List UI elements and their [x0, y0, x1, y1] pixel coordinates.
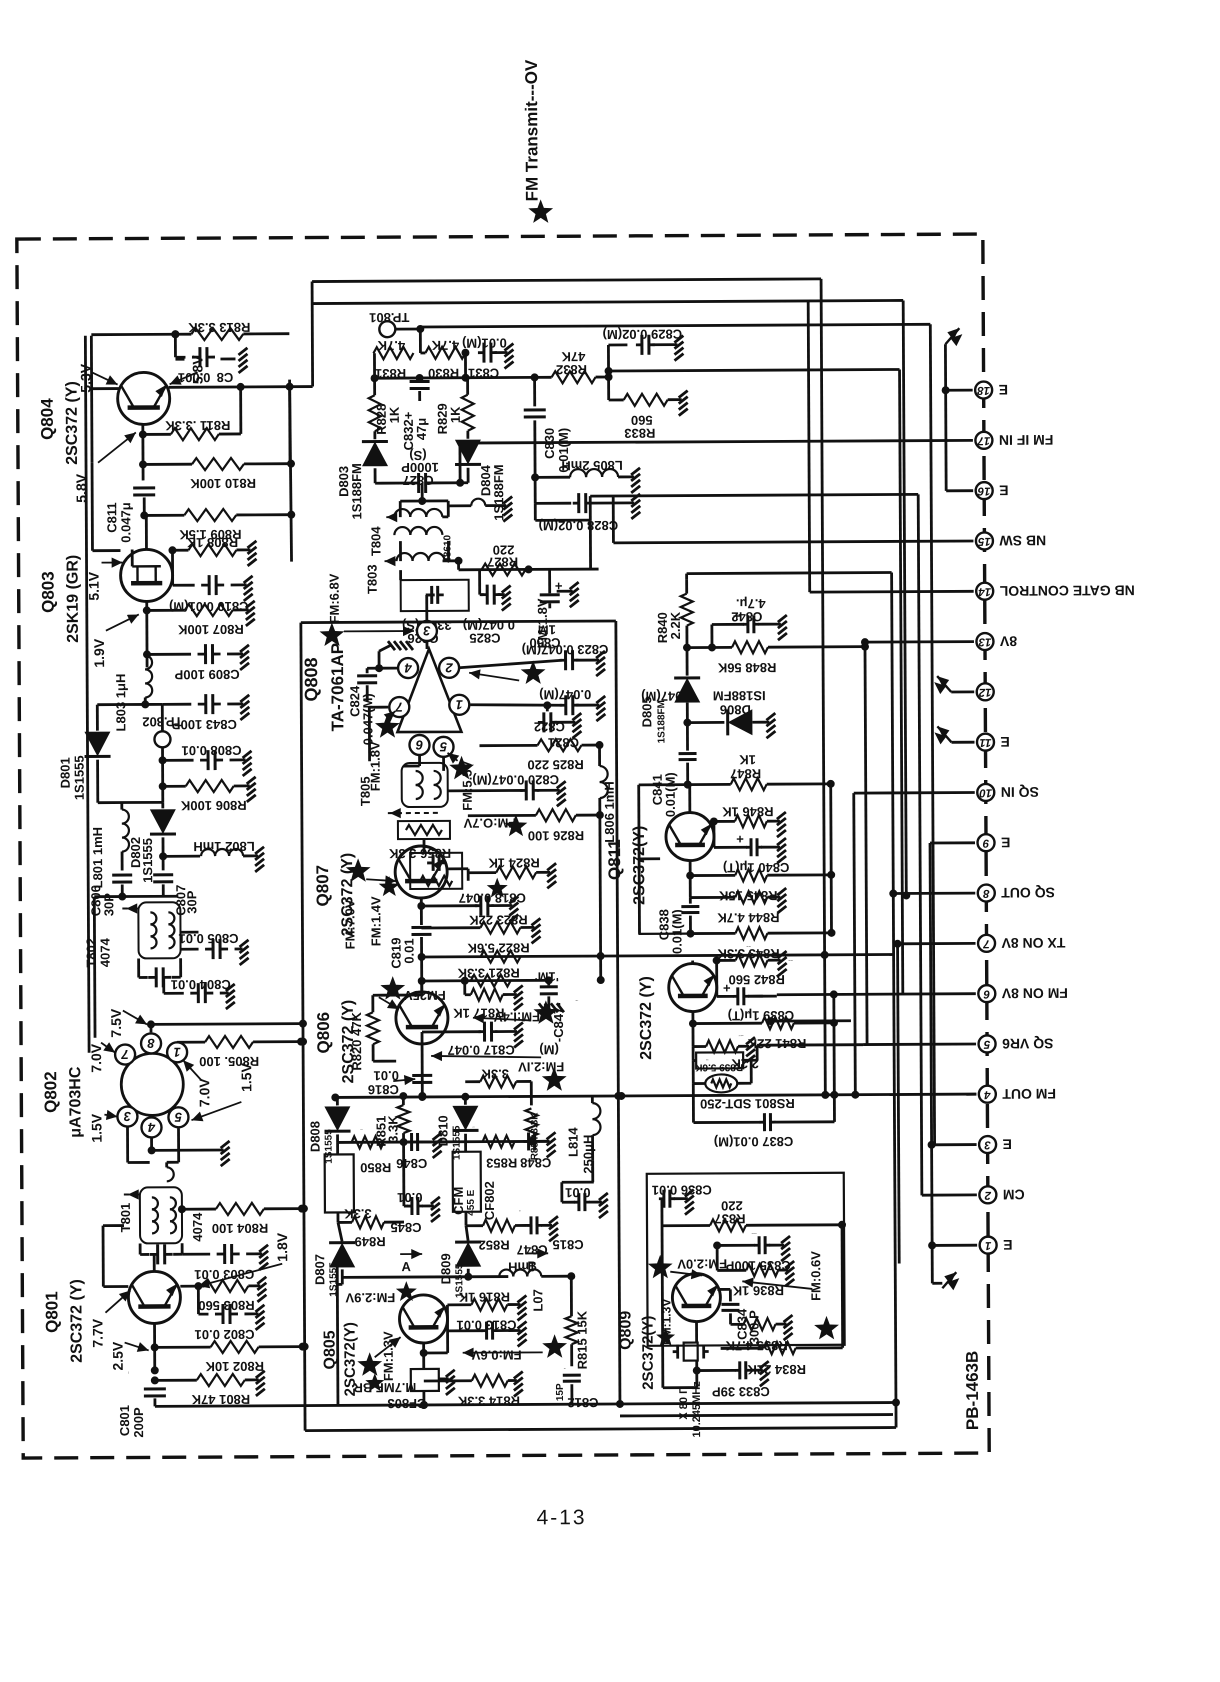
pin Q808-7	[389, 697, 409, 717]
wire Q801 base	[103, 1226, 128, 1287]
wire C801 bottom	[154, 1398, 157, 1406]
wire q806 col up	[420, 981, 423, 995]
wire mid box top	[301, 621, 616, 623]
wire mid vertical x617	[612, 621, 624, 1404]
inductor L806 1mH	[600, 745, 618, 843]
svg-text:R821 3.3K: R821 3.3K	[457, 965, 520, 980]
thermistor RS801	[693, 1060, 795, 1112]
board name PB-1463B	[963, 1351, 982, 1430]
svg-text:CM: CM	[1003, 1187, 1025, 1203]
wire bus right mid5	[850, 793, 860, 1099]
wire top bus A	[312, 279, 821, 282]
wire x592 upper	[589, 520, 592, 569]
svg-text:R853: R853	[486, 1155, 517, 1170]
svg-text:12: 12	[978, 686, 991, 698]
wire row377	[370, 352, 538, 382]
svg-text:Q806: Q806	[314, 1012, 333, 1054]
capacitor C830 0.01(M)	[524, 410, 571, 473]
wire pin8 SQ OUT	[893, 892, 975, 895]
connector pin 17 FM IF IN	[975, 431, 1053, 448]
testpoint TP.802	[142, 704, 182, 747]
svg-text:1: 1	[985, 1239, 991, 1251]
svg-text:T801: T801	[118, 1203, 133, 1233]
transistor Q801	[128, 1271, 180, 1323]
ground CF803	[439, 1370, 455, 1395]
svg-text:1S188FM: 1S188FM	[491, 464, 506, 520]
capacitor C841 0.01(M)	[649, 723, 696, 818]
svg-text:4: 4	[404, 661, 413, 676]
label 7.5V	[108, 1008, 147, 1038]
svg-text:4-13: 4-13	[536, 1506, 586, 1529]
wire row956	[418, 951, 894, 961]
svg-text:CFM: CFM	[451, 1187, 466, 1215]
svg-text:TA-7061AP: TA-7061AP	[328, 643, 347, 732]
resistor R824 1K	[468, 855, 550, 897]
resistor R850 box	[325, 1142, 392, 1222]
svg-text:1: 1	[173, 1045, 180, 1060]
label FM:1.3V q805	[357, 1331, 401, 1381]
svg-text:+: +	[733, 608, 741, 623]
svg-text:3: 3	[123, 1109, 131, 1124]
svg-text:R822 5.6K: R822 5.6K	[467, 940, 530, 955]
resistor R829 1K	[435, 378, 474, 435]
wire Q801 emitter	[151, 1323, 159, 1374]
wire R840 top	[687, 573, 892, 580]
tank disc box	[410, 853, 462, 889]
svg-text:47μ: 47μ	[414, 418, 429, 441]
capacitor C8x	[413, 1221, 416, 1224]
capacitor C843 100P	[162, 694, 243, 732]
resistor R808 1K	[168, 535, 250, 556]
ground R844	[777, 888, 786, 913]
wire y371 bus	[535, 371, 609, 377]
wire mid vertical x600	[596, 830, 605, 984]
svg-text:R804 100: R804 100	[212, 1221, 268, 1236]
connector pin 2 CM	[979, 1186, 1024, 1203]
resistor R828 1K	[369, 378, 402, 435]
svg-text:17: 17	[977, 434, 990, 446]
ground Q802	[221, 1141, 230, 1166]
label FM:2.1V	[431, 1050, 567, 1091]
capacitor C845 0.01	[390, 1142, 434, 1235]
svg-text:0.01: 0.01	[397, 1190, 422, 1205]
ground C845	[431, 1197, 440, 1222]
wire pin11 stub	[951, 741, 974, 744]
svg-text:0.01(M): 0.01(M)	[462, 336, 507, 351]
ground C850	[550, 582, 579, 608]
capacitor C813 0.01	[447, 1317, 520, 1339]
svg-text:+: +	[723, 980, 731, 995]
svg-text:FM:I.4V: FM:I.4V	[493, 1009, 540, 1024]
wire pin18 stub	[942, 386, 973, 394]
wire pin10 SQ IN	[854, 791, 975, 794]
connector pin 7 TX ON 8V	[978, 934, 1065, 951]
wire E bus 18-16	[944, 344, 948, 491]
ground R806	[247, 777, 256, 802]
svg-text:L07: L07	[530, 1289, 545, 1311]
wire D row down	[400, 483, 448, 501]
resistor R840 2.2K	[655, 580, 693, 652]
tank R856 box	[388, 821, 451, 861]
svg-text:FM ON 8V: FM ON 8V	[1001, 985, 1068, 1001]
svg-text:R846 1K: R846 1K	[722, 804, 774, 819]
ground D806	[766, 713, 775, 738]
svg-text:R839 5.6K: R839 5.6K	[694, 1061, 743, 1072]
tank T803 box	[401, 580, 469, 611]
svg-text:R815 15K: R815 15K	[574, 1310, 589, 1369]
resistor R852 3.3K	[466, 1209, 526, 1252]
capacitor C835 100P	[717, 1232, 791, 1273]
svg-text:FM:6.8V: FM:6.8V	[327, 573, 342, 623]
transistor Q804	[118, 372, 170, 424]
capacitor C847b	[516, 1216, 552, 1257]
label FM:2.9V	[345, 1281, 417, 1305]
svg-text:R810 100K: R810 100K	[190, 476, 256, 491]
svg-text:7.0V: 7.0V	[196, 1078, 212, 1108]
ground C843	[240, 695, 249, 720]
svg-text:T802: T802	[84, 938, 99, 968]
resistor R849 3.3K	[338, 1206, 404, 1249]
diode D808 1S1555	[307, 1096, 350, 1163]
resistor R805 100	[177, 1036, 305, 1070]
svg-text:14: 14	[978, 585, 991, 597]
wire Q808 p4	[367, 645, 397, 672]
resistor R843 3.3K	[686, 927, 835, 962]
svg-text:C820 0.047(M): C820 0.047(M)	[472, 772, 559, 787]
ground R836	[785, 1261, 794, 1286]
svg-text:R838: R838	[706, 1058, 709, 1060]
label 1.5V a	[88, 1110, 117, 1143]
svg-text:R849: R849	[355, 1234, 386, 1249]
svg-text:R842 560: R842 560	[728, 972, 784, 987]
capacitor C808 0.01	[162, 743, 245, 770]
resistor R817 1K	[452, 980, 516, 1020]
capacitor C832 47u	[401, 378, 430, 450]
ground R846	[777, 812, 786, 837]
svg-text:2: 2	[445, 660, 454, 675]
svg-text:2: 2	[984, 1189, 992, 1201]
ground R823	[531, 918, 540, 943]
transformer T803	[364, 541, 462, 594]
svg-text:7: 7	[983, 937, 990, 949]
svg-text:8: 8	[982, 887, 989, 899]
svg-text:C836 0.01: C836 0.01	[652, 1182, 712, 1197]
ground C848	[547, 1132, 556, 1157]
wire Q811b emitter	[689, 1012, 697, 1028]
wire pin16 stub	[946, 489, 973, 492]
svg-text:C848: C848	[520, 1155, 551, 1170]
svg-text:4074: 4074	[98, 937, 113, 967]
capacitor T802 tune	[139, 958, 181, 987]
wire row1095	[331, 1090, 976, 1101]
svg-text:4.7K: 4.7K	[431, 338, 459, 353]
svg-text:(M): (M)	[539, 1042, 559, 1057]
svg-text:'1M': '1M'	[535, 969, 559, 984]
svg-text:R837: R837	[714, 1211, 745, 1226]
wire Q804 box	[91, 330, 180, 462]
transformer T805	[358, 763, 448, 819]
svg-text:C804 0.01: C804 0.01	[171, 977, 231, 992]
chassis arrow bottom	[942, 1272, 959, 1290]
capacitor C806 30P	[88, 875, 132, 916]
wire Q804 col	[168, 304, 313, 465]
wire bus x824	[821, 279, 825, 1095]
connector pin 18 E	[975, 381, 1008, 398]
diode D802 1S1555	[128, 802, 176, 883]
transistor Q806	[396, 992, 448, 1044]
label 7.0V b	[183, 1060, 212, 1107]
svg-text:C830: C830	[542, 428, 557, 459]
transformer T804	[368, 501, 453, 563]
svg-text:0.047μ: 0.047μ	[118, 502, 133, 543]
svg-text:D809: D809	[438, 1253, 453, 1284]
svg-text:FM:2.IV: FM:2.IV	[518, 1059, 565, 1074]
svg-text:R833: R833	[624, 426, 655, 441]
wire pin9 stub	[930, 841, 975, 844]
svg-text:E: E	[1000, 734, 1009, 750]
svg-text:8: 8	[147, 1036, 155, 1051]
label Q808	[301, 643, 347, 732]
capacitor C802 0.01	[194, 1286, 258, 1342]
svg-text:FM IF IN: FM IF IN	[999, 432, 1054, 448]
ground C810	[244, 576, 253, 601]
svg-text:FM:1.4V: FM:1.4V	[368, 896, 383, 946]
ground R816	[517, 1295, 526, 1320]
capacitor C847m	[535, 969, 564, 1012]
wire bus right mid3	[888, 573, 900, 1428]
star Q807 base	[346, 858, 397, 886]
IC Q808 triangle	[397, 649, 461, 732]
svg-text:16: 16	[977, 485, 990, 497]
svg-text:2SC372 (Y): 2SC372 (Y)	[638, 976, 655, 1060]
svg-text:5: 5	[983, 1038, 990, 1050]
svg-text:R823 22K: R823 22K	[469, 912, 528, 927]
svg-text:FM:1.3V: FM:1.3V	[381, 1331, 396, 1381]
wire L803 bottom	[97, 697, 162, 708]
capacitor C829 0.02(M)	[603, 327, 683, 355]
connector pin 16 E	[976, 482, 1009, 499]
label FM:0.6V q809	[742, 1251, 839, 1340]
svg-text:R808 1K: R808 1K	[186, 535, 238, 550]
capacitor C834 300P	[717, 1289, 761, 1344]
transformer T801 4074	[118, 1187, 205, 1243]
svg-text:L806 1mH: L806 1mH	[602, 781, 617, 842]
svg-text:L801 1mH: L801 1mH	[90, 827, 105, 888]
box Q809	[647, 1173, 845, 1346]
svg-text:T804: T804	[368, 526, 383, 556]
svg-text:D806: D806	[720, 702, 751, 717]
ground R842	[778, 951, 787, 976]
svg-text:C8 0.001: C8 0.001	[178, 370, 233, 385]
wire Q802 pin5	[127, 1127, 178, 1162]
svg-text:FM:1.8V: FM:1.8V	[535, 598, 550, 648]
svg-text:4: 4	[984, 1088, 992, 1100]
wire TP801 row	[395, 322, 930, 353]
pin Q808-6	[409, 735, 429, 755]
wire pin3 stub	[928, 1141, 977, 1149]
label 1.5V b	[191, 1062, 254, 1121]
svg-text:FM:2.9V: FM:2.9V	[345, 1290, 395, 1305]
testpoint TP.801	[369, 310, 409, 337]
inductor T801 link	[167, 1162, 179, 1181]
svg-text:SQ OUT: SQ OUT	[1001, 885, 1055, 901]
svg-text:R848 56K: R848 56K	[717, 660, 776, 675]
capacitor C814 0.001	[175, 347, 233, 385]
svg-text:11: 11	[979, 736, 991, 748]
capacitor T801 tune	[140, 1243, 182, 1264]
label 7.0V a	[88, 1042, 115, 1073]
wire Q802 top	[147, 1020, 301, 1033]
ground C805	[240, 940, 249, 965]
label Q806	[314, 1000, 357, 1084]
resistor R820 47K	[349, 995, 422, 1071]
capacitor C803 0.01	[182, 1244, 262, 1282]
resistor R827 220	[481, 542, 525, 575]
wire pin6 FM ON 8V	[777, 990, 976, 999]
svg-text:-C847: -C847	[575, 999, 578, 1002]
resistor R815 15K	[565, 1276, 589, 1369]
capacitor C820 0.047(M)	[448, 772, 560, 801]
wire C811-Q803	[140, 497, 148, 519]
svg-text:0.047(M): 0.047(M)	[539, 687, 591, 702]
capacitor C825 0.047(M)	[463, 569, 515, 645]
ground R835	[783, 1315, 792, 1340]
svg-text:C811: C811	[104, 502, 119, 532]
wire Q803 emitter	[143, 601, 151, 667]
wire bus x933	[930, 324, 934, 1144]
resistor R804 100	[178, 1203, 306, 1237]
resistor R837 220	[662, 1198, 846, 1232]
svg-text:4: 4	[147, 1120, 156, 1135]
svg-text:15P: 15P	[564, 1367, 566, 1369]
wire Q809 bottom	[619, 1198, 893, 1416]
label FM:6.8V	[319, 573, 414, 646]
wire pin14 NB GATE	[808, 300, 974, 592]
ground C803	[259, 1245, 268, 1270]
svg-text:5.8V: 5.8V	[73, 473, 89, 503]
capacitor C840 1u	[714, 821, 790, 875]
svg-text:FM:0.6V: FM:0.6V	[808, 1251, 823, 1301]
wire pin13 junction	[861, 638, 869, 646]
connector pin 6 FM ON 8V	[978, 985, 1068, 1002]
wire pin4 FM OUT	[966, 1093, 976, 1096]
resistor R821 3.3K	[457, 965, 520, 986]
label FM:1.4V q807	[368, 876, 400, 946]
wire row1141	[338, 1141, 550, 1142]
ground C815	[599, 1193, 608, 1218]
svg-text:560: 560	[631, 413, 653, 428]
wire R832 up	[608, 345, 627, 377]
resistor R806 100K	[159, 780, 250, 813]
resistor R814 3.3K	[424, 1374, 520, 1409]
svg-text:E: E	[999, 483, 1008, 499]
label Q801	[42, 1279, 85, 1363]
resistor R841 22K	[693, 995, 838, 1052]
label Q807	[313, 853, 356, 937]
resistor R826 100	[468, 809, 604, 844]
diode D805 1S188FM	[639, 648, 701, 744]
svg-text:1: 1	[456, 697, 463, 712]
capacitor C818b	[421, 890, 526, 916]
wire Q811 emitter	[686, 861, 694, 880]
label FM:0.7V	[463, 814, 527, 836]
ground R807	[246, 601, 255, 626]
wire pin1 stub	[928, 1241, 977, 1249]
wire pin12 stub	[951, 690, 974, 693]
svg-text:5.1V: 5.1V	[86, 571, 102, 601]
resistor R809 1.5K	[144, 509, 295, 543]
svg-text:0.01(M): 0.01(M)	[663, 772, 678, 817]
wire C814	[175, 358, 235, 361]
ground C809	[240, 645, 249, 670]
resistor R84x	[352, 1128, 384, 1148]
transistor Q805	[399, 1295, 447, 1343]
ground L805	[631, 468, 640, 493]
pin Q808-2	[439, 658, 459, 678]
wire bottom row1429	[305, 1428, 896, 1431]
connector pin 15 NB SW	[976, 532, 1046, 549]
ground C813	[518, 1321, 527, 1346]
wire E bus 9-3-1	[930, 843, 942, 1283]
svg-text:13: 13	[978, 636, 991, 648]
chassis arrow pin12	[934, 676, 951, 694]
resistor R844 4.7K	[690, 875, 780, 925]
capacitor C826 330P	[402, 586, 452, 646]
resistor R816 1K	[447, 1289, 520, 1310]
pin Q808-5	[433, 737, 453, 757]
svg-text:Q803: Q803	[39, 571, 58, 613]
arrow mark B	[526, 1248, 548, 1273]
svg-text:0.01(M): 0.01(M)	[669, 909, 684, 954]
resistor R845 15K	[690, 869, 835, 904]
diode D806 1S188FM	[687, 688, 769, 735]
svg-text:30P: 30P	[184, 890, 199, 914]
wire pin15 NB SW	[613, 494, 973, 543]
label Q811b	[638, 976, 655, 1060]
svg-text:CF802: CF802	[482, 1181, 497, 1220]
wire Q808 p5	[442, 758, 445, 771]
resistor R801 47K	[151, 1374, 259, 1408]
svg-text:R807 100K: R807 100K	[177, 622, 243, 637]
capacitor C811 0.047u	[104, 488, 155, 543]
chassis arrow top	[945, 328, 962, 346]
diode D803 1S188FM	[336, 431, 388, 519]
svg-text:1K: 1K	[387, 406, 402, 423]
inductor L801 1mH	[90, 802, 163, 888]
label FM25V	[379, 976, 446, 1009]
svg-text:R838 2.2K: R838 2.2K	[738, 1034, 743, 1036]
wire row980	[418, 956, 553, 995]
wire tank join	[424, 839, 468, 881]
svg-text:R844 4.7K: R844 4.7K	[717, 910, 780, 925]
svg-text:Q804: Q804	[38, 398, 57, 440]
svg-text:2SC372(Y): 2SC372(Y)	[639, 1316, 656, 1390]
svg-text:2SK19 (GR): 2SK19 (GR)	[64, 555, 81, 643]
resistor R811 3.3K	[143, 387, 241, 441]
svg-text:7.7V: 7.7V	[89, 1318, 105, 1348]
label FM:0.6V q805	[463, 1334, 568, 1363]
resistor R839 5.6K box	[693, 1046, 751, 1083]
label FM:7.0V	[342, 899, 357, 949]
svg-text:D805: D805	[639, 696, 654, 727]
resistor R854b	[525, 1108, 540, 1160]
svg-text:2SC372 (Y): 2SC372 (Y)	[68, 1279, 85, 1363]
capacitor C809 100P	[143, 644, 243, 683]
ground R838	[746, 1037, 755, 1062]
inductor L802 1mH	[163, 839, 258, 856]
svg-text:3.3K: 3.3K	[385, 1115, 400, 1143]
svg-text:E: E	[1003, 1136, 1012, 1152]
